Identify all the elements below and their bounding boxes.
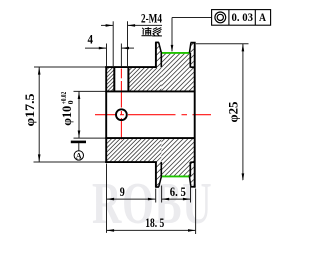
right body face	[194, 42, 196, 187]
dim 6.5 line	[162, 198, 191, 200]
hatch right flange disc bottom	[162, 163, 217, 187]
green highlighted tooth surface bottom	[162, 175, 190, 177]
tolerance frame leader horizontal	[172, 17, 212, 19]
dim phi10 line	[78, 91, 80, 138]
concentricity symbol outer circle	[215, 12, 226, 23]
ext line M4 hole left	[112, 21, 114, 66]
left flange outer face bottom	[155, 162, 157, 188]
svg-text:4: 4	[88, 31, 94, 46]
M4 hole left wall	[113, 67, 115, 91]
svg-text:2-M4: 2-M4	[141, 10, 162, 25]
left flange bottom edge	[155, 186, 159, 188]
right flange bottom edge	[191, 186, 196, 188]
dim 2-M4 line left part	[101, 24, 113, 26]
right flange top edge	[191, 42, 196, 44]
datum A circle	[74, 151, 83, 160]
dim 2-M4 right arrow	[128, 24, 136, 27]
tolerance frame	[212, 10, 271, 26]
hub top edge	[105, 66, 157, 68]
ext line hub left face up	[106, 44, 108, 67]
dim 9 line	[107, 198, 156, 200]
red M4 hole centerline	[120, 69, 122, 140]
right flange top chamfer	[189, 43, 191, 53]
ext line M4 center up	[120, 44, 122, 67]
dim 9 left arrow	[107, 198, 115, 201]
dim phi25 top arrow	[242, 44, 245, 52]
text 通丝 (drawn glyphs)	[142, 28, 161, 36]
hub top edge ext thin part	[34, 66, 106, 68]
dim phi10 bottom arrow	[78, 131, 81, 139]
left flange top edge	[155, 41, 159, 43]
right flange inner face top	[189, 53, 191, 67]
M4 hole right wall	[127, 67, 129, 91]
green highlighted tooth surface top	[162, 52, 190, 54]
dim 4 line left part	[85, 47, 106, 49]
dim phi25 ext line	[196, 43, 249, 45]
svg-text:0. 03: 0. 03	[232, 10, 254, 24]
dim phi25 bottom arrow	[242, 173, 245, 181]
bottom ext line hub left face	[106, 164, 108, 233]
datum A stem	[78, 143, 80, 151]
svg-text:A: A	[76, 151, 82, 160]
bore bottom line ext thin part	[74, 137, 106, 139]
dim phi17.5 line	[38, 67, 40, 162]
bottom ext line left flange inner	[161, 186, 163, 203]
hatch right flange disc top	[163, 43, 212, 67]
red bore axis centerline	[95, 114, 211, 116]
dim phi17.5 bottom arrow	[38, 154, 41, 162]
right step top	[190, 66, 194, 68]
dim 9 right arrow	[148, 198, 156, 201]
dim 4 left arrow	[99, 47, 107, 50]
svg-text:6. 5: 6. 5	[170, 184, 186, 199]
bore bottom line	[105, 137, 194, 139]
dim 18.5 left arrow	[107, 229, 115, 232]
dim 4 right arrow	[121, 47, 129, 50]
dim 2-M4 left arrow	[106, 24, 114, 27]
bore top line ext thin part	[74, 90, 106, 92]
right step bottom	[190, 161, 194, 163]
M4 far-side hole circle	[116, 109, 127, 120]
dim 18.5 line	[107, 229, 196, 231]
ext line M4 hole right	[127, 21, 129, 66]
datum A bar	[71, 141, 86, 144]
svg-text:A: A	[259, 10, 266, 24]
hatch rim bottom	[122, 138, 230, 176]
tolerance frame leader arrow	[171, 45, 174, 53]
svg-text:0: 0	[66, 100, 75, 104]
svg-text:φ25: φ25	[226, 101, 241, 122]
hub left face	[105, 66, 107, 163]
bottom ext line right flange inner	[190, 186, 192, 203]
svg-text:18. 5: 18. 5	[145, 215, 164, 230]
hatch hub top-right of M4 hole	[104, 68, 182, 91]
concentricity symbol inner circle	[217, 14, 223, 20]
bottom ext line left flange outer	[155, 189, 157, 203]
left flange top chamfer	[159, 43, 162, 53]
dim 6.5 left arrow	[162, 198, 170, 201]
right flange bottom chamfer	[189, 176, 191, 186]
hatch hub top-left of M4 hole	[82, 68, 135, 91]
left flange outer face top	[155, 42, 157, 67]
dim 4 line right part	[122, 47, 135, 49]
dim phi25 line	[242, 44, 244, 180]
bore top line	[105, 90, 194, 92]
hub bottom edge	[105, 161, 157, 163]
left flange inner face top	[160, 53, 162, 68]
hub bottom edge ext thin part	[34, 161, 106, 163]
left flange bottom chamfer	[159, 176, 162, 187]
bottom ext line right body face	[195, 189, 197, 235]
dim phi17.5 top arrow	[38, 67, 41, 75]
tolerance frame leader vertical	[171, 18, 173, 52]
svg-text:9: 9	[120, 184, 125, 199]
hatch left flange disc bottom	[131, 163, 180, 187]
left flange inner face bottom	[160, 162, 162, 177]
dim 6.5 right arrow	[183, 198, 191, 201]
hatch left flange disc top	[126, 43, 182, 68]
svg-text:φ10: φ10	[59, 106, 74, 126]
hatch rim top	[119, 53, 232, 92]
dim phi10 top arrow	[78, 91, 81, 99]
dim 2-M4 line right part	[128, 24, 162, 26]
dim 18.5 right arrow	[188, 229, 196, 232]
svg-text:φ17.5: φ17.5	[22, 93, 37, 127]
hatch hub bottom	[80, 138, 184, 161]
text phi10 with tolerance	[59, 92, 75, 126]
right flange inner face bottom	[189, 162, 191, 176]
